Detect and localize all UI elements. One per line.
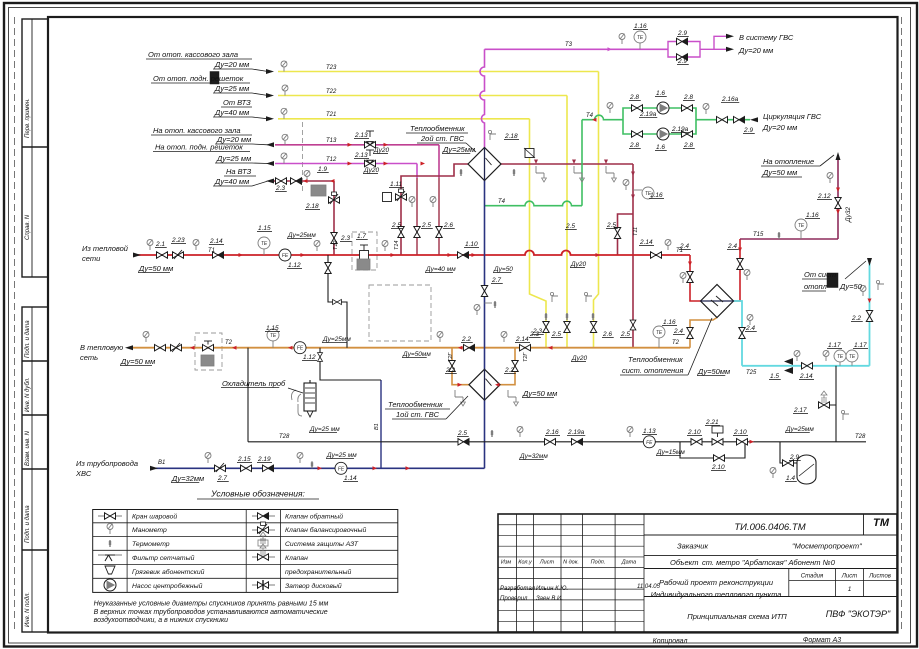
svg-text:Подп.: Подп. [591,560,606,566]
air vents above T2 cluster [550,292,558,302]
pipe maroon jog to T1 [618,214,634,255]
sensor TE on T2 [272,341,274,348]
pipe jumper T1 to T2 [328,255,347,348]
svg-text:2.6: 2.6 [602,331,612,338]
svg-text:Ду=40 мм: Ду=40 мм [214,108,249,117]
svg-text:ХВС: ХВС [75,469,92,478]
thermometer TE 1.15 on T1 [263,249,265,255]
svg-text:ст. метро "Арбатская" Абоне: ст. метро "Арбатская" Абонент №0 [702,558,836,567]
check valve 1.10 on T1 [458,252,469,258]
pipe cold riser below HX1 [484,400,486,469]
sensor TE 1.17 a [839,362,841,366]
svg-text:Неуказанные условные диаметр: Неуказанные условные диаметры спускников… [94,600,329,608]
svg-text:Ду=50 мм: Ду=50 мм [762,168,797,177]
svg-text:2.1: 2.1 [155,241,165,248]
manometer on maroon drop [623,180,629,191]
svg-text:Индивидуального теплового пу: Индивидуального теплового пункта [651,590,782,599]
flow ticks T12 [348,162,353,166]
title block outline [498,514,897,632]
flowmeter FE 1.14 on B1 [335,462,347,474]
svg-text:Разработал: Разработал [500,586,536,592]
svg-text:2.7: 2.7 [491,277,501,284]
svg-text:Дата: Дата [621,560,637,566]
svg-text:Кол.у: Кол.у [518,560,533,566]
svg-text:2.12: 2.12 [817,193,831,200]
svg-text:2.9: 2.9 [789,454,799,461]
valve 2.3 on Na VTZ line [276,178,287,184]
pipe T3 check valve loop [668,36,727,57]
svg-text:Принципиальная схема ИТП: Принципиальная схема ИТП [687,612,787,621]
flow tick T28 [750,440,755,444]
pipe sample cooler branch [320,348,381,380]
check valve 2.19 on B1 [263,465,274,471]
pipe T1 main supply [134,251,690,256]
drain on HX red line 2 [574,166,584,182]
svg-text:воздухоотводчики, а в нижни: воздухоотводчики, а в нижних спускники [94,616,229,624]
stamp column bottom boxes [22,307,48,632]
pipe HX1 primary return [500,348,516,385]
valve 2.5 on maroon to T1 [614,228,620,239]
pipe T13 magenta horizontal [275,144,439,146]
manometer riser 740 [744,270,750,281]
svg-text:Ду=25 мм: Ду=25 мм [309,426,340,433]
check valve 2.14 on T1 [213,252,224,258]
valve 2.15 on B1 [241,465,252,471]
svg-text:сеть: сеть [80,353,98,362]
flow tick on T1 [239,253,244,257]
valve 2.1 on T1 [157,252,168,258]
flowmeter FE 1.12 on T1 [279,249,291,261]
manometer B1 mid [297,453,303,464]
svg-text:ПВФ "ЭКОТЭР": ПВФ "ЭКОТЭР" [826,609,891,619]
svg-text:2.15: 2.15 [237,456,251,463]
valve 2.12 on Na otoplenie [835,198,841,209]
pipe T28 drop from T2 [247,348,249,442]
gray actuator box 1.7 [357,259,370,270]
svg-text:2.14: 2.14 [515,336,529,343]
check valve 2.16a [717,117,728,123]
manometer B1 [205,453,211,464]
svg-text:2.5: 2.5 [421,222,431,229]
svg-text:2.19а: 2.19а [567,429,585,436]
svg-text:Справ. N: Справ. N [25,214,31,240]
svg-text:В верхних точках трубопровод: В верхних точках трубопроводов устанавли… [94,608,328,616]
pipe expansion vessel branch [780,442,797,463]
svg-text:На отоп. кассового зала: На отоп. кассового зала [153,126,241,135]
title block left grid verticals [516,514,518,632]
thermometer cold riser [485,302,493,304]
svg-text:Подп. и дата: Подп. и дата [25,505,31,543]
pipe T28 bypass loop [680,442,745,458]
title block stage grid [788,569,790,597]
manometer cyan 2 [823,351,829,362]
valve 2.16 on T28 [545,439,556,445]
black mark over label podn [210,72,219,85]
svg-text:1.15: 1.15 [266,325,279,332]
svg-text:От отоп. кассового зала: От отоп. кассового зала [148,50,238,59]
svg-text:Инв. N подл.: Инв. N подл. [25,592,31,627]
title block left grid rows [498,524,644,526]
check valve 2.9 upper [677,38,688,44]
svg-text:Т4: Т4 [586,113,594,119]
pipe T3 horizontal to DHW system [485,48,669,50]
svg-text:2.4: 2.4 [727,243,737,250]
svg-text:2.8: 2.8 [629,94,639,101]
svg-text:Клапан балансировочный: Клапан балансировочный [285,526,366,534]
manometer on T1 left [147,240,153,251]
pipe T25 from heating HX right [733,301,742,366]
svg-text:2.19а: 2.19а [671,126,689,133]
flow ticks maroon drop [631,172,635,177]
flow ticks T13 [348,143,353,147]
svg-text:2.5: 2.5 [620,331,630,338]
svg-text:2.2: 2.2 [445,367,455,374]
legend symbol safety valve [252,556,275,558]
svg-text:Ду=25 мм: Ду=25 мм [214,84,249,93]
valve 2.9 vessel branch [783,460,794,466]
pipe Na VTZ line [272,180,334,182]
svg-text:От ВТЗ: От ВТЗ [223,98,251,107]
valve 2.1 on T2 [155,345,166,351]
svg-text:Подп. и дата: Подп. и дата [25,320,31,358]
svg-text:Объект: Объект [670,558,699,567]
svg-text:1.10: 1.10 [465,241,478,248]
air vent on T3 riser [488,130,496,140]
pipe cold riser between HX2 and HX1 [484,180,486,370]
manometer T21 [281,108,287,119]
solenoid 2.21 [712,439,723,445]
manometer T13 [282,134,288,145]
thermometer TE 1.16 on T3 [639,43,641,49]
check valve 2.19a on T28 [572,439,583,445]
legend symbol filter [98,554,122,556]
svg-text:Т2Г: Т2Г [523,352,529,362]
svg-text:2.19: 2.19 [257,456,271,463]
svg-text:1.12: 1.12 [303,354,316,361]
svg-text:ТИ.006.0406.ТМ: ТИ.006.0406.ТМ [734,522,805,533]
pipe T28 make-up line [248,441,866,443]
svg-text:2.7: 2.7 [217,475,227,482]
svg-text:Заказчик: Заказчик [677,542,708,551]
svg-text:Теплообменник: Теплообменник [388,400,443,409]
svg-text:ТМ: ТМ [873,517,890,529]
manometer cyan drop [747,315,753,326]
valve 2.8 pump2 out [682,131,693,137]
pipe maroon drop east of HX2 [632,164,634,348]
svg-text:Ду=25 мм: Ду=25 мм [216,154,251,163]
svg-text:2.17: 2.17 [793,407,807,414]
svg-text:Условные обозначения:: Условные обозначения: [210,489,305,499]
filter 2.23 on T2 [171,345,182,351]
flow tick green [592,118,597,122]
entry arrow circulation [750,117,758,122]
svg-text:Т1: Т1 [208,248,215,254]
pipe T23 yellow riser [594,72,599,348]
pipe T2 main return [131,347,690,349]
safety valve 2.17 [819,402,830,408]
drain on HX red line [536,166,546,182]
svg-text:2.5: 2.5 [551,331,561,338]
stamp column top boxes [22,19,48,277]
manometer on riser 417 [409,197,415,208]
manometer T2 mid2 [501,332,507,343]
valve 2.7 on cold riser [481,286,487,297]
svg-text:Ду=50 мм: Ду=50 мм [120,357,155,366]
legend symbol ball valve [98,515,122,517]
sample cooler vessel [304,383,316,411]
svg-text:2.3: 2.3 [340,235,350,242]
svg-text:1: 1 [848,586,852,593]
regulator valve 1.9 on T2 [203,345,214,351]
fold dashed line left [14,17,16,632]
manometer T23 [281,61,287,72]
svg-text:1.17: 1.17 [828,342,841,349]
valve 2.4 on red riser 740 [737,259,743,270]
svg-text:Т12: Т12 [333,241,339,250]
svg-text:Формат А3: Формат А3 [803,637,841,644]
svg-text:Т11: Т11 [633,227,639,236]
svg-text:предохранительный: предохранительный [285,568,351,576]
svg-text:1.4: 1.4 [786,475,795,482]
svg-text:Теплообменник: Теплообменник [410,124,465,133]
svg-text:2.14: 2.14 [639,239,653,246]
svg-text:Т22: Т22 [326,89,337,95]
svg-text:От сист: От сист [804,270,836,279]
pipe T4 horizontal high with bump [582,115,623,119]
svg-text:Ду=25мм: Ду=25мм [442,145,475,154]
sensor TE 1.16 on T15 [800,231,802,239]
drain stubs below HX1 [455,390,465,406]
air vent right of cyan [876,280,884,290]
svg-text:Т13: Т13 [326,138,337,144]
valve 2.10 b [737,439,748,445]
svg-text:2.13: 2.13 [354,132,368,139]
valve 2.8 pump1 out [682,105,693,111]
thermometer at HX2 left [460,169,462,176]
svg-text:2.9: 2.9 [743,127,753,134]
pipe safety branch 2.17 [818,404,836,406]
svg-text:Т14: Т14 [394,241,400,250]
svg-text:2.8: 2.8 [629,142,639,149]
svg-text:2.18: 2.18 [504,133,518,140]
manometer Na VTZ [304,171,310,182]
svg-text:Ду=50: Ду=50 [839,282,863,291]
svg-text:1.15: 1.15 [258,225,271,232]
svg-text:Ду=20 мм: Ду=20 мм [762,123,797,132]
thermometer at HX2 right [513,169,515,176]
sensor TE 1.17 b [851,362,853,366]
flow ticks on HX red line [534,160,538,165]
svg-text:Ду=25 мм: Ду=25 мм [326,452,357,459]
svg-text:Ду=15мм: Ду=15мм [656,449,685,456]
ticks into HX1 [458,383,463,387]
flow tick on T1 [472,253,477,257]
manometer vessel branch [770,468,776,479]
svg-text:Заен В.И.: Заен В.И. [536,596,563,602]
legend symbol balancing valve [252,529,275,531]
valve 2.2 on cyan riser [866,311,872,322]
thermometer on T15 [778,232,780,239]
svg-text:Ду32: Ду32 [845,206,852,223]
manometer on T4 riser [607,103,613,114]
heat exchanger U2 DHW 2nd stage [468,148,501,181]
svg-text:Т3: Т3 [565,42,573,48]
sensor TE 1.16 near T2 [658,338,660,348]
svg-text:сист. отопления: сист. отопления [622,366,683,375]
svg-text:Рабочий проект реконструкции: Рабочий проект реконструкции [659,578,774,587]
manometer cold riser [474,305,480,316]
pipe HX2 primary feed from T1 [401,164,469,255]
svg-text:Из тепловой: Из тепловой [82,244,129,253]
flow tick T2 2 [232,346,237,350]
svg-text:Ду=25мм: Ду=25мм [287,232,316,239]
valve 2.8 pump2 in [632,131,643,137]
legend symbol check valve [252,515,275,517]
pipe T2 from heating HX bottom [690,318,717,348]
svg-text:Система защиты АЗТ: Система защиты АЗТ [285,541,359,548]
valve 2.10 bypass [714,455,725,461]
small valve at 337 [333,299,342,304]
title block TM box [863,514,865,535]
svg-text:Ду=20 мм: Ду=20 мм [738,46,773,55]
svg-text:1ой ст. ГВС: 1ой ст. ГВС [396,410,440,419]
valve 2.5 on riser 417 [414,227,420,238]
pipe HX1 primary feed [452,348,470,385]
svg-text:сети: сети [82,254,101,263]
entry arrow Iz teplovoy seti [133,253,141,258]
svg-text:2.14: 2.14 [209,238,223,245]
svg-text:Т23: Т23 [326,65,337,71]
svg-text:Грязевик абонентский: Грязевик абонентский [132,568,205,576]
pipe T3 riser with bumps over yellow [480,49,485,148]
svg-text:2.10: 2.10 [733,429,747,436]
pipe B1 branch to cooler [380,380,382,468]
pipe T21 yellow horizontal [278,118,530,120]
flow ticks T2 mid [458,346,463,350]
exit arrow V teplovuyu set [125,345,133,350]
svg-text:Ду=40 мм: Ду=40 мм [425,266,456,273]
svg-text:2.3: 2.3 [275,185,285,192]
svg-text:2.9: 2.9 [677,30,687,37]
legend symbol manometer [107,524,113,535]
thermometer on T28 [491,430,493,437]
svg-text:N док.: N док. [563,560,579,566]
valve 2.4 on cyan drop [739,328,745,339]
svg-text:2.6: 2.6 [443,222,453,229]
svg-text:Ду=32мм: Ду=32мм [171,474,204,483]
valve 2.5 on maroon drop south [630,320,636,330]
pump 1.6 upper [657,102,669,114]
pipe B1 cold water main [154,467,485,469]
svg-text:Насос центробежный: Насос центробежный [132,582,203,590]
flow tick T2 [190,346,195,350]
dashed box around regulator 1.9 on T2 [195,333,222,370]
svg-text:Манометр: Манометр [132,527,167,534]
regulator 1.7 on T1 [360,251,369,260]
valve 2.10 a [691,439,702,445]
manometer T22 [282,85,288,96]
pipe T4 horizontal low with bumps [485,201,583,206]
svg-text:Т2: Т2 [672,340,680,346]
manometer right of 1.7 [382,241,388,252]
svg-text:Копировал: Копировал [653,638,688,645]
valve 2.6 on riser 439 [436,227,442,238]
svg-text:1.17: 1.17 [854,342,867,349]
pipe T25 horizontal [742,365,870,367]
legend symbol thermometer [109,540,111,547]
svg-text:Ду20: Ду20 [571,355,588,362]
svg-text:На отопление: На отопление [763,157,814,166]
valve 2.4 on red riser 690 [687,272,693,283]
manometer on T1 [193,240,199,251]
check valve 2.9 lower [677,54,688,60]
svg-text:Лист: Лист [841,574,857,580]
svg-text:1.9: 1.9 [318,166,327,173]
check valve 2.14 cyan [802,363,813,369]
svg-text:2.18: 2.18 [305,203,319,210]
svg-text:1.16: 1.16 [806,212,819,219]
dashed box around regulator 1.7 [352,232,377,270]
heat exchanger U3 heating system [701,285,734,318]
svg-text:Кран шаровой: Кран шаровой [132,513,177,521]
svg-text:Ду20: Ду20 [570,261,587,268]
svg-text:1.16: 1.16 [634,23,647,30]
pipe T15 horizontal [740,238,838,240]
flow tick on T1 east [596,253,601,257]
legend symbol AZT protection [260,532,266,543]
svg-text:Ду=50мм: Ду=50мм [697,367,730,376]
manometer Na otoplenie [827,173,833,184]
svg-text:1.16: 1.16 [650,192,663,199]
svg-text:В1: В1 [158,460,165,466]
svg-text:2.9: 2.9 [677,58,687,65]
pump 1.5 cyan [784,358,793,365]
valve triangle yellow T22 end [564,322,570,333]
svg-text:Затвор дисковый: Затвор дисковый [285,582,342,590]
exit arrows V sistemu GVS [726,34,734,39]
svg-text:1.14: 1.14 [344,475,357,482]
svg-text:2.5: 2.5 [565,223,575,230]
svg-text:2.21: 2.21 [705,419,719,426]
svg-text:Взам. инв. N: Взам. инв. N [25,430,31,466]
riser T13 to T1 [438,145,440,178]
thermometer B1 [311,461,313,468]
svg-text:Перв. примен.: Перв. примен. [25,98,31,138]
svg-text:Т25: Т25 [746,370,757,376]
thermometer TE 1.16 east [633,189,642,191]
black mark near Ot sist otopl [827,273,838,288]
svg-text:Ду=50мм: Ду=50мм [402,351,431,358]
svg-text:Фильтр сетчатый: Фильтр сетчатый [132,554,195,562]
svg-text:Т21: Т21 [326,112,336,118]
svg-text:Т28: Т28 [855,434,866,440]
valve triangle yellow T21 end [543,322,549,333]
svg-text:2.3: 2.3 [532,328,542,335]
valve 2.9 circulation [734,117,745,123]
svg-text:Т28: Т28 [279,434,290,440]
manometer on T1 east [665,240,671,251]
pipe link cyan to T28 [835,366,837,442]
flow ticks Na VTZ [303,179,308,183]
valve 2.4 on orange drop [687,328,693,339]
flow ticks B1 [318,466,323,470]
filter 2.7 on B1 [215,465,226,471]
svg-text:Клапан: Клапан [285,555,308,562]
riser T12 to T1 [416,164,418,179]
svg-text:Т4: Т4 [498,199,506,205]
valve 2.5 on riser 401 [398,227,404,238]
svg-text:1.13: 1.13 [643,428,656,435]
